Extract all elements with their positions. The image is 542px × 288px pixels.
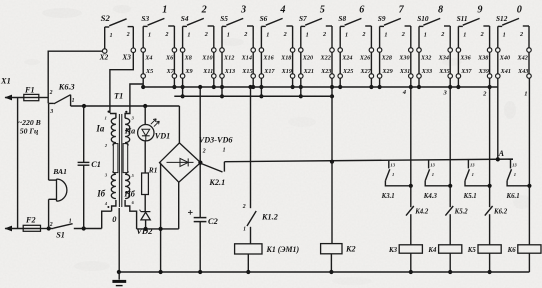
wire ground bus [119,271,530,273]
node A label [498,149,505,158]
T1 primary bottom lead to 0 rail [104,200,116,211]
svg-text:Х20: Х20 [302,55,313,62]
svg-text:2: 2 [480,31,484,38]
svg-text:S8: S8 [338,14,346,23]
svg-text:Iб: Iб [96,189,105,199]
contact K6.3 [48,90,74,115]
svg-text:S11: S11 [457,14,468,23]
wire S10 pin1 to bus A [418,78,420,87]
svg-text:К6.3: К6.3 [58,83,75,92]
junction A wire taps [330,157,500,164]
junction column К6 [527,184,531,188]
wire BA1 bottom to S1 [48,199,50,228]
wire S12 pin2 down to K6 column [528,78,530,186]
contact К4.2 (NC in column) [406,206,414,245]
svg-text:1: 1 [148,32,151,39]
wire bridge bottom corner to secondary-bottom rail [178,182,180,229]
wire X3 to T1 primary top [110,52,133,113]
svg-text:Х17: Х17 [263,68,275,75]
digit label 6 [359,5,365,16]
svg-text:К5: К5 [467,247,477,254]
column count label 3 [443,90,448,97]
svg-text:9: 9 [477,5,482,16]
svg-text:Х16: Х16 [262,55,274,62]
contact K6.3 label [58,83,75,92]
terminal Х7 [166,68,177,78]
junction VD1 top [143,104,147,108]
wire S6 pin1 to bus B [260,78,262,96]
junction К4 on ground bus [448,270,452,274]
junction VD2 bottom [144,227,148,231]
wire bus B down to K2 [331,96,333,243]
terminal Х28 [377,48,392,62]
svg-text:Х12: Х12 [223,55,234,62]
svg-text:13: 13 [512,163,517,168]
terminal Х31 [399,68,413,78]
svg-text:2: 2 [482,90,487,97]
svg-text:2: 2 [519,31,523,38]
svg-text:Х10: Х10 [201,55,212,62]
contact К5.2 label [454,208,469,215]
contact К6.2 label [493,208,508,215]
X1 plug body line [17,98,19,229]
digit label 1 [162,5,167,16]
svg-text:0: 0 [517,5,522,16]
junction K1 on ground bus [246,270,250,274]
fuse F1 label [24,85,35,94]
terminal Х32 [417,48,432,62]
switch S5 [220,14,253,48]
T1 primary winding Ib [104,143,118,199]
column count label 4 [402,89,407,96]
junction on bus A [417,85,421,89]
diode VD2 label [136,226,153,236]
terminal Х13 [220,68,235,78]
junction on secondary-bottom rail [159,227,163,231]
svg-text:Х35: Х35 [438,68,449,75]
LED VD1 [138,106,160,141]
wire S11 pin2 down to relay column [489,78,491,186]
digit label 7 [399,5,405,16]
contact К5.1 label [463,193,477,200]
relay K1 label [266,245,300,254]
svg-text:Х15: Х15 [241,68,252,75]
switch S7 [299,14,332,48]
terminal Х18 [280,48,295,62]
svg-text:2: 2 [202,149,206,155]
switch S2 [101,13,134,49]
terminal Х20 [299,48,314,62]
relay coil К6 [518,245,541,253]
bridge rectifier VD3-VD6 [160,143,201,182]
capacitor C2 plus mark [188,210,193,215]
svg-text:Х28: Х28 [381,55,392,62]
relay К3 label [388,247,398,254]
wire S3 pin2 to bus A [173,78,175,87]
T1 winding IIb label [123,190,135,199]
terminal Х34 [438,48,453,62]
digit label 0 [517,5,522,16]
svg-text:Х26: Х26 [359,55,371,62]
T1 winding Ib label [96,189,105,199]
svg-text:3: 3 [443,90,448,97]
wire connector pair S6 [261,52,292,73]
svg-text:1: 1 [514,172,516,177]
wire S4 pin1 to bus B [182,78,184,96]
svg-text:13: 13 [470,163,475,168]
terminal Х4 [141,48,152,62]
svg-text:2: 2 [201,5,207,16]
relay coil К5 [478,245,501,253]
contact K2.1 [201,148,226,172]
wire K6.3 pin1 to bridge top (node) [71,106,180,143]
terminal Х11 [202,68,216,78]
svg-text:К2: К2 [345,245,356,254]
svg-text:1: 1 [72,98,75,104]
T1 winding Ia label [95,124,104,134]
svg-text:2: 2 [49,90,53,96]
junction on bus B [330,94,334,98]
wire connector pair S12 [498,52,529,73]
svg-text:1: 1 [392,172,394,177]
svg-text:Х18: Х18 [280,55,291,62]
T1 secondary winding IIa [125,84,143,145]
svg-text:1: 1 [503,32,506,39]
terminal Х5 [141,68,153,78]
switch S11 [457,14,490,48]
svg-text:Х6: Х6 [165,55,174,62]
junction on bus A [369,85,373,89]
wire connector pair S7 [301,52,332,73]
svg-text:S3: S3 [141,14,149,23]
switch S9 [378,14,411,48]
junction bridge plus / C2 [198,161,202,165]
junction on bus A [251,85,255,89]
wire connector pair S4 [183,52,214,73]
svg-text:S10: S10 [417,14,429,23]
relay К5 label [467,247,477,254]
digit label 3 [240,5,246,16]
terminal Х41 [496,68,511,78]
svg-text:S2: S2 [101,13,111,23]
wire S9 pin2 down to relay column [410,78,412,186]
resistor R1 [142,173,149,195]
junction column К4 [448,184,452,188]
wire S4 pin2 to bus A [213,78,215,87]
svg-text:VD1: VD1 [155,132,170,141]
svg-text:1: 1 [345,32,348,39]
terminal Х21 [299,68,314,78]
junction on bus A [448,85,452,89]
X1 upper prong arrow [5,95,24,101]
svg-text:S7: S7 [299,14,307,23]
junction on bus A [330,85,334,89]
svg-text:1: 1 [187,32,190,39]
terminal Х33 [417,68,432,78]
svg-text:1: 1 [105,116,107,121]
T1 secondary winding IIb [123,144,135,199]
svg-text:5: 5 [320,5,325,16]
junction on bus A [172,85,176,89]
svg-text:IIб: IIб [123,190,135,199]
terminal Х27 [359,68,373,78]
speaker BA1 [49,179,67,201]
junction on bus B [259,94,263,98]
terminal X2 [99,49,109,62]
contact К4.3 label [423,193,438,200]
wire node A horizontal [224,159,513,162]
svg-text:К3: К3 [388,247,398,254]
svg-text:1: 1 [384,32,387,39]
svg-text:Х37: Х37 [460,68,472,75]
fuse F2 label [25,216,36,225]
wire bridge minus (left corner) down to ground bus [160,163,162,272]
wire connector pair S9 [380,52,411,73]
wire F1 to K6.3 junction [39,97,48,99]
svg-text:Х9: Х9 [184,68,192,75]
svg-text:S12: S12 [496,14,508,23]
svg-text:Iа: Iа [95,124,104,134]
svg-text:S1: S1 [56,231,65,240]
relay coil К3 [399,245,422,253]
wire K2 to ground bus [330,254,332,272]
T1 primary winding Ia [105,114,116,146]
wire K6.3 pin3 down to BA1 [48,104,50,180]
contact К5.1 [465,160,490,186]
column count label 1 [524,90,527,97]
terminal Х24 [338,48,353,62]
junction bus A taps [198,85,253,89]
relay К4 label [427,247,437,254]
wire S11 pin1 to bus A [457,78,459,87]
wire К3 to ground bus [410,253,412,272]
contact К3.1 label [381,193,395,200]
svg-text:2: 2 [164,31,168,38]
junction BA1 bottom on S1 wire [47,226,51,230]
terminal Х8 [180,48,191,62]
terminal Х12 [220,48,235,62]
T1 secondary bottom lead [125,200,137,229]
svg-text:Х14: Х14 [241,55,252,62]
wire bus A [143,86,498,88]
junction node A [496,157,500,161]
svg-text:1: 1 [424,32,427,39]
junction ground bus taps [117,270,202,274]
wire connector pair S10 [419,52,450,73]
contact К6.2 (NC in column) [485,206,493,245]
junction on bus A [378,85,382,89]
fuse F1 [24,94,39,100]
svg-text:Х43: Х43 [517,68,528,75]
contact K2.1 label [208,178,225,187]
junction on bus A [299,85,303,89]
svg-text:К1.2: К1.2 [261,212,278,221]
svg-text:Х4: Х4 [144,55,152,62]
digit label 4 [279,5,285,16]
svg-text:Х32: Х32 [420,55,431,62]
svg-text:К5.1: К5.1 [463,193,477,200]
T1 winding IIa label [124,127,135,136]
svg-text:2: 2 [361,31,365,38]
switch S8 [338,14,371,48]
relay К6 label [507,247,517,254]
svg-text:1: 1 [227,32,230,39]
contact К6.1 label [506,193,520,200]
terminal Х10 [201,48,216,62]
junction on bus B [181,94,185,98]
junction on bus B [220,94,224,98]
junction column К5 [488,184,492,188]
svg-text:1: 1 [432,172,434,177]
terminal Х30 [398,48,413,62]
wire column to NC contact К6.2 [489,186,491,207]
label ~220V 50Hz [18,118,41,135]
terminal Х9 [180,68,192,78]
relay K2 label [345,245,356,254]
switch S6 [260,14,293,48]
svg-text:К6.1: К6.1 [506,193,520,200]
wire S9 pin1 to bus A [379,78,381,87]
svg-text:Х27: Х27 [359,68,371,75]
resistor R1 label [148,165,158,174]
junction on bus A [488,85,492,89]
bridge VD3-VD6 label [199,136,234,145]
svg-text:Х29: Х29 [381,68,392,75]
svg-text:Х34: Х34 [438,55,449,62]
svg-text:А: А [498,149,505,158]
svg-text:S5: S5 [220,14,228,23]
svg-text:1: 1 [243,226,246,232]
svg-text:2: 2 [126,32,130,38]
wire K1 to ground bus [247,254,249,272]
capacitor C1 value label [91,160,101,169]
svg-text:IIа: IIа [124,127,135,136]
svg-text:1: 1 [306,32,309,39]
relay coil К4 [439,245,462,253]
terminal Х42 [516,48,531,62]
wire connector pair S11 [458,52,489,73]
switch S1 [49,218,73,239]
svg-text:2: 2 [322,31,326,38]
svg-text:3: 3 [49,109,53,115]
terminal Х15 [241,68,255,78]
transformer T1 label [114,92,123,101]
junction K2 on ground bus [329,270,333,274]
T1 polarity dots [107,111,127,209]
svg-text:S9: S9 [378,14,386,23]
terminal Х36 [456,48,471,62]
svg-text:Х39: Х39 [478,68,489,75]
svg-text:1: 1 [266,32,269,39]
junction on bus A [259,85,263,89]
diode VD2 [140,210,151,229]
svg-text:S6: S6 [260,14,268,23]
svg-text:2: 2 [283,31,287,38]
svg-text:1: 1 [223,148,226,154]
wire R1 to VD2 [144,195,146,212]
terminal Х17 [259,68,275,78]
svg-text:К4.3: К4.3 [423,193,438,200]
svg-text:Х22: Х22 [319,55,330,62]
capacitor C2 label [208,217,218,226]
junction on bus B [299,94,303,98]
svg-text:13: 13 [390,163,395,168]
contact К4.2 label [414,208,429,215]
terminal Х29 [377,68,392,78]
wire К5 to ground bus [489,253,491,272]
svg-text:К3.1: К3.1 [381,193,395,200]
svg-text:2: 2 [242,204,246,210]
switch S12 [496,14,529,48]
svg-text:Х7: Х7 [166,68,175,75]
svg-text:К6: К6 [507,247,517,254]
terminal Х39 [478,68,492,78]
svg-text:К4.2: К4.2 [414,208,429,215]
digit label 5 [320,5,325,16]
contact К4.3 [425,160,450,185]
svg-text:50 Гц: 50 Гц [20,127,39,136]
svg-text:VD3-VD6: VD3-VD6 [199,136,234,145]
terminal Х43 [517,68,531,78]
switch S3 [141,14,174,48]
svg-text:Х30: Х30 [398,55,409,62]
svg-text:Х36: Х36 [459,55,471,62]
svg-text:Х19: Х19 [281,68,292,75]
svg-text:Х8: Х8 [184,55,192,62]
wire S10 pin2 down to relay column [449,78,451,186]
svg-text:Х33: Х33 [421,68,432,75]
wire column to NC contact К4.2 [410,186,412,207]
wire S1 to transformer 0 rail [74,211,112,228]
svg-text:Х25: Х25 [342,68,353,75]
svg-text:F1: F1 [24,85,35,94]
svg-text:Х5: Х5 [145,68,153,75]
wire К4 to ground bus [449,253,451,272]
junction on bus A [409,85,413,89]
wire connector pair S3 [143,52,174,73]
svg-text:13: 13 [430,163,435,168]
column count label 2 [482,90,487,97]
contact К3.1 [385,161,410,186]
svg-text:1: 1 [463,32,466,39]
contact K1.2 [242,204,257,244]
svg-text:3: 3 [240,5,246,16]
wire column to NC contact К5.2 [449,186,451,207]
junction C1 top [82,104,86,108]
contact K1.2 label [261,212,278,221]
svg-text:Х1: Х1 [0,77,11,86]
svg-text:К1 (ЭМ1): К1 (ЭМ1) [266,245,300,254]
terminal Х14 [241,48,256,62]
svg-text:2: 2 [401,31,405,38]
digit label 8 [438,5,443,16]
wire bus B [174,95,332,97]
svg-text:Х3: Х3 [121,53,131,62]
node 0 label (center tap) [112,215,117,224]
svg-text:Х40: Х40 [499,55,510,62]
wire S5 pin1 to bus B [221,78,223,96]
svg-text:К4: К4 [427,247,437,254]
terminal Х40 [496,48,511,62]
wire F2 to S1 [41,228,54,230]
junction C1 bottom [82,226,86,230]
svg-text:Х38: Х38 [477,55,488,62]
svg-text:2: 2 [204,31,208,38]
svg-text:1: 1 [162,5,167,16]
svg-text:Х13: Х13 [224,68,235,75]
junction on bus A [141,85,145,89]
terminal Х38 [477,48,492,62]
